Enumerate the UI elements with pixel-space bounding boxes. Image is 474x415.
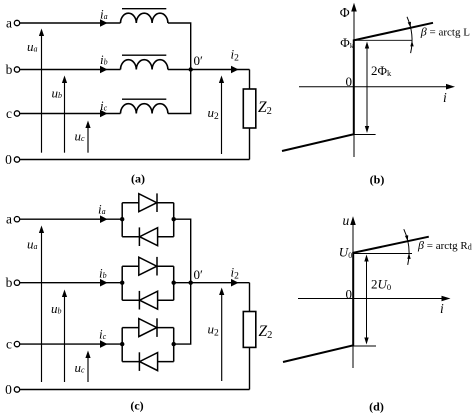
svg-text:u: u (343, 213, 350, 228)
svg-text:β = arctg Rd: β = arctg Rd (417, 238, 472, 252)
svg-text:0: 0 (346, 287, 353, 302)
svg-text:β = arctg L: β = arctg L (420, 25, 470, 39)
svg-text:i: i (443, 90, 447, 105)
svg-text:(b): (b) (370, 173, 385, 187)
svg-text:0: 0 (346, 74, 353, 89)
svg-text:c: c (6, 106, 12, 121)
svg-text:0′: 0′ (194, 267, 204, 282)
svg-text:a: a (6, 15, 12, 30)
svg-text:i: i (440, 301, 444, 316)
svg-text:(d): (d) (369, 400, 384, 414)
svg-text:(a): (a) (131, 172, 145, 186)
svg-text:c: c (6, 336, 12, 351)
svg-text:0′: 0′ (194, 53, 204, 68)
svg-text:0: 0 (5, 382, 12, 397)
svg-text:b: b (6, 275, 13, 290)
svg-text:Φ: Φ (340, 5, 350, 20)
svg-text:(c): (c) (130, 399, 143, 413)
svg-text:0: 0 (5, 152, 12, 167)
svg-text:b: b (6, 62, 13, 77)
svg-text:a: a (6, 212, 12, 227)
